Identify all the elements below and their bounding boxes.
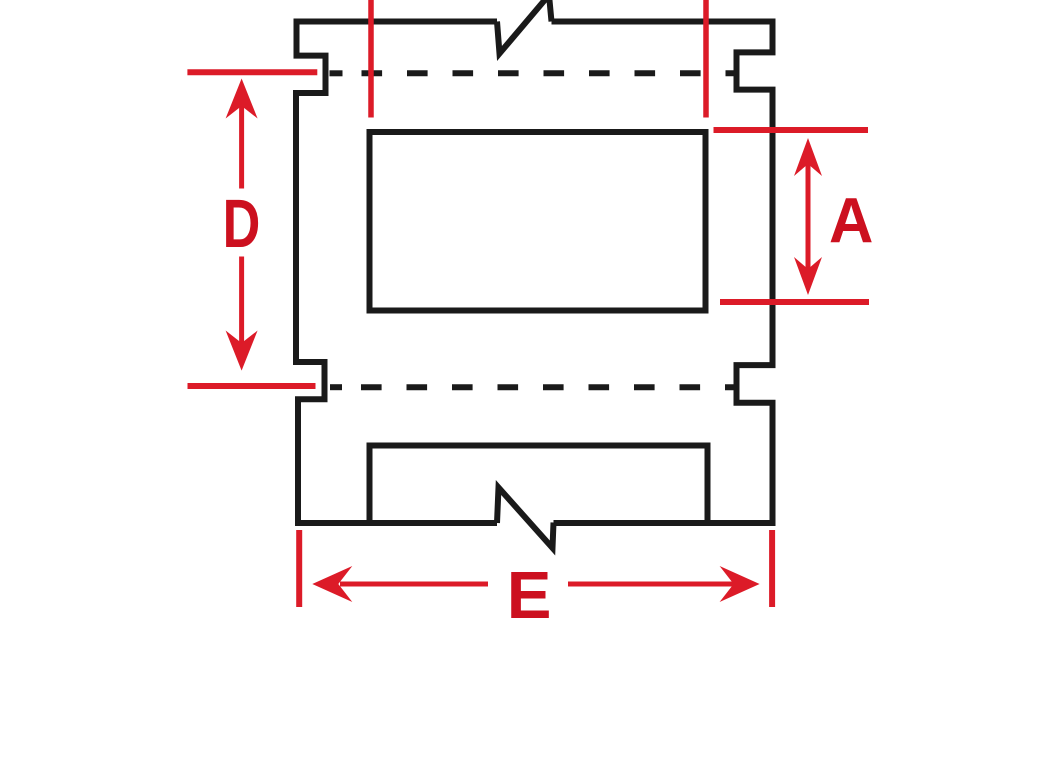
liner left profile with top/bottom edges and two left notches — [296, 22, 497, 524]
dimension A top tick — [714, 127, 869, 133]
dimension D bottom tick — [188, 383, 316, 389]
svg-text:D: D — [223, 185, 261, 262]
dimension D top tick — [187, 69, 317, 75]
liner right profile with top/bottom edges and two right notches — [552, 22, 773, 524]
dimension D letter — [223, 185, 261, 262]
dimension D upper shaft — [239, 100, 244, 189]
dimension A bottom tick — [720, 299, 869, 305]
dimension E left arrowhead — [312, 566, 352, 602]
lower perforation dashed line — [361, 384, 737, 390]
upper label rectangle — [370, 132, 706, 311]
dimension E right tick — [769, 530, 775, 607]
dimension E left tick — [296, 530, 302, 607]
lower partial label rectangle — [370, 446, 708, 524]
svg-text:A: A — [829, 185, 873, 256]
dimension D lower shaft — [239, 257, 244, 346]
top break symbol — [497, 0, 552, 54]
dimension E right arrowhead — [720, 566, 760, 602]
upper perforation stub dash — [330, 70, 343, 76]
red extension line right (label width) — [703, 0, 709, 118]
dimension A shaft — [806, 160, 811, 272]
svg-text:E: E — [507, 558, 552, 633]
dimension A letter — [829, 185, 873, 256]
dimension E letter — [507, 558, 552, 633]
dimension E right shaft — [568, 582, 740, 587]
lower perforation stub dash — [330, 384, 342, 390]
dimension D down arrowhead — [226, 331, 258, 371]
dimension A down arrowhead — [794, 257, 822, 295]
upper perforation dashed line — [362, 70, 738, 76]
dimension A up arrowhead — [794, 138, 822, 176]
red extension line left (label width) — [368, 0, 374, 118]
bottom break symbol — [497, 488, 554, 549]
dimension D up arrowhead — [226, 79, 258, 119]
dimension E left shaft — [340, 582, 488, 587]
